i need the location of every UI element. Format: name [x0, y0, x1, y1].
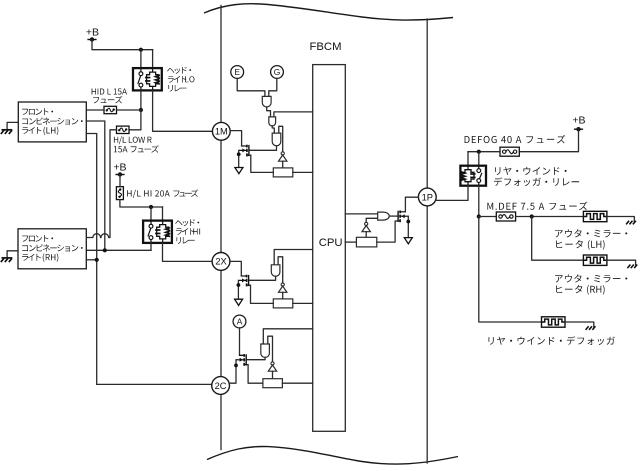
wire H/L LOW R fuse to RH low-beam feed	[110, 130, 117, 238]
junction HI relay switch feed	[149, 205, 153, 209]
junction mirror heater branch	[530, 214, 534, 218]
wire defog relay switch output	[478, 186, 480, 217]
wire gate U3 output	[272, 126, 274, 133]
wire +B to relay feeds	[92, 40, 153, 50]
resistor R3	[263, 379, 283, 388]
wire heater RH to ground	[607, 260, 636, 265]
wire gate U10 output to Q4 gate	[389, 215, 398, 217]
inverter U5	[279, 152, 287, 161]
wire HID L fuse to front combination light LH	[86, 109, 104, 111]
ground (outer mirror heater LH)	[626, 221, 636, 225]
relay: headlight HI relay	[143, 221, 172, 243]
wire gate U2 output	[267, 107, 271, 117]
node 2C	[212, 377, 230, 395]
junction high-beam LH/RH	[103, 248, 107, 252]
relay: rear window defogger relay	[460, 166, 486, 186]
wire LO relay switch top pin	[140, 50, 142, 68]
wire heater LH to ground	[607, 217, 634, 222]
junction Q3 source	[234, 364, 238, 368]
wire RH tail to 2C bus	[86, 259, 96, 261]
wire inverter U11 to resistor R4	[365, 232, 367, 238]
wire defog relay switch top pin	[478, 152, 480, 166]
junction Q4 source	[406, 220, 410, 224]
wire FBCM left boundary (below 2C)	[220, 394, 222, 449]
fuse H/L HI 20A (vertical)	[116, 187, 123, 200]
transistor Q4 (defogger relay driver)	[396, 211, 408, 223]
wire inverter U9 to resistor	[272, 371, 274, 379]
wire A to Q3 drain	[240, 328, 245, 356]
wire HI relay switch output (high beam bus)	[150, 243, 152, 250]
power +B (defogger feed)	[572, 115, 585, 132]
label headlight HI relay line1	[175, 219, 199, 226]
fuse DEFOG 40A	[500, 147, 519, 156]
label outer mirror heater RH line1	[555, 274, 627, 282]
label front combination light RH line3	[22, 253, 58, 262]
svg-text:CPU: CPU	[319, 237, 343, 249]
label rear window defogger	[489, 336, 615, 345]
wire gate U4 output to Q1 gate	[250, 146, 277, 151]
wire LH high-beam feed	[86, 121, 105, 250]
wire junction to HID L fuse	[117, 109, 141, 111]
wire RH low-beam with crossover hops	[86, 234, 110, 238]
wire LH light to ground	[7, 122, 18, 129]
wire resistor R1 to CPU	[293, 171, 313, 173]
FBCM module top boundary (torn edge)	[204, 4, 453, 20]
wire H/L HI fuse to HI relay pins	[120, 200, 163, 207]
wire E to gate input	[237, 78, 265, 96]
label HID L fuse line2	[93, 96, 122, 104]
label front combination light LH line3	[22, 127, 58, 136]
resistor R2	[273, 299, 293, 308]
wire LO relay coil top pin	[152, 50, 154, 68]
wire inverter U5 to resistor	[282, 161, 284, 168]
label 15A fuse	[114, 145, 159, 153]
svg-text:+B: +B	[86, 27, 99, 39]
wire inverter U11 to gate U10 input	[366, 218, 378, 222]
wire +B to H/L HI fuse	[119, 175, 121, 187]
ground (Q4 source)	[404, 238, 412, 244]
wire FBCM left boundary (2X to 2C)	[220, 270, 222, 376]
label defogger relay line1	[495, 167, 566, 175]
wire high-beam bus to lights	[86, 249, 151, 251]
wire M.DEF fuse to mirror heaters	[516, 216, 584, 218]
wire Q3 body to resistor R3	[248, 365, 263, 384]
transistor Q3 (tail lamp driver)	[236, 354, 248, 366]
inverter U7	[279, 283, 287, 292]
wire inverter node to gate U8 input	[268, 336, 273, 362]
node A	[233, 315, 246, 328]
label front combination light RH line1	[22, 235, 53, 242]
label defogger relay line2	[494, 177, 579, 186]
wire CPU to gate U8 input	[263, 329, 312, 344]
wire FBCM right boundary (below 1P)	[426, 206, 428, 463]
junction DEFOG fuse output	[477, 150, 481, 154]
wire CPU to gate U6 input	[274, 250, 313, 265]
wire FBCM right boundary x=427.2 (above 1P)	[426, 19, 428, 188]
wire resistor R3 to CPU	[282, 382, 312, 384]
front combination light (RH) box	[18, 229, 86, 269]
wire CPU to gate U10 input	[345, 213, 377, 215]
wire defog relay coil top pin	[467, 152, 469, 166]
inverter U9	[268, 362, 276, 371]
label H/L LOW R	[114, 136, 152, 144]
gate U2 (E/G AND)	[262, 96, 271, 107]
wire branch to mirror heater RH	[532, 217, 584, 261]
label headlight LO relay line3	[168, 85, 186, 92]
wire Q4 source to ground	[407, 216, 409, 237]
wire inverter node to gate U6 input	[278, 257, 283, 283]
label M.DEF 7.5 A fuse	[487, 202, 587, 211]
label front combination light RH line2	[22, 244, 82, 251]
gate U8	[261, 344, 270, 357]
wire RH light to ground	[7, 251, 18, 258]
label outer mirror heater LH line1	[555, 229, 627, 237]
svg-text:+B: +B	[113, 161, 126, 173]
transistor Q2 (headlight HI driver)	[238, 275, 250, 287]
gate U6	[271, 265, 280, 276]
label H/L HI 20A fuse	[127, 189, 198, 198]
svg-text:G: G	[274, 67, 281, 77]
heater: rear window defogger element	[542, 317, 566, 327]
wire DEFOG fuse to junction	[468, 151, 500, 153]
wire gate U6 output to Q2 gate	[249, 276, 275, 280]
wire 1M to Q1 drain	[230, 131, 241, 146]
wire FBCM left boundary (1M to 2X)	[220, 140, 222, 252]
wire Q1 body to resistor R1	[251, 155, 273, 172]
node G	[271, 66, 284, 79]
wire Q1 source to ground	[238, 150, 240, 167]
FBCM module bottom boundary (torn edge)	[207, 446, 458, 464]
wire Q4 drain to 1P	[405, 197, 418, 212]
node 1P	[418, 188, 436, 206]
junction tail lamp bus	[95, 258, 99, 262]
node E	[231, 66, 244, 79]
wire Q4 body to resistor R4	[377, 221, 400, 242]
wire inverter U7 to resistor	[282, 292, 284, 299]
ground (Q1 source)	[235, 168, 243, 174]
resistor R1	[273, 168, 293, 177]
svg-text:E: E	[234, 67, 240, 77]
wire resistor R2 to CPU	[293, 302, 313, 304]
label outer mirror heater RH line2	[556, 285, 605, 295]
wire +B to DEFOG fuse	[519, 129, 578, 152]
svg-text:+B: +B	[572, 115, 585, 127]
wire junction down to H/L LOW R fuse	[130, 110, 141, 130]
wire 2X to Q2 drain	[230, 261, 241, 276]
heater: outer mirror heater LH element	[583, 211, 607, 221]
label headlight HI relay line3	[177, 237, 195, 244]
ground (outer mirror heater RH)	[627, 265, 637, 269]
wire gate U8 output to Q3 gate	[247, 357, 265, 359]
wire Q2 body to resistor R2	[251, 285, 274, 303]
wire resistor R4 to CPU	[345, 241, 356, 243]
wire CPU to gate U3 input	[274, 112, 313, 117]
junction Q2 source	[237, 283, 241, 287]
svg-text:2C: 2C	[215, 381, 227, 391]
label headlight LO relay line1	[167, 67, 191, 74]
wire defogger bus to rear window defogger	[479, 217, 542, 323]
inverter U11	[362, 222, 370, 231]
wire FBCM left boundary x=221 (segment above 1M)	[220, 6, 222, 123]
power +B (headlight LO relay feed)	[86, 27, 99, 42]
front combination light (LH) box	[18, 102, 86, 142]
label DEFOG 40 A fuse	[465, 135, 566, 144]
svg-text:2X: 2X	[215, 257, 226, 267]
junction Q1 source	[237, 152, 241, 156]
wire LO relay switch output to junction	[140, 91, 142, 111]
gate U4	[272, 133, 281, 146]
transistor Q1 (headlight LO driver)	[239, 145, 251, 157]
wire 2C bus to 2C node	[97, 383, 212, 385]
wire defog relay coil to 1P	[436, 186, 468, 201]
svg-text:FBCM: FBCM	[310, 41, 342, 53]
junction defogger output bus	[477, 214, 481, 218]
heater: outer mirror heater RH element	[583, 255, 607, 265]
wire inverter node to gate U4 input	[279, 126, 283, 152]
junction +B feed to LO relay switch	[139, 48, 143, 52]
wire G to gate input	[269, 78, 277, 96]
relay: headlight LO relay	[133, 68, 162, 90]
ground (Q2 source)	[235, 299, 243, 305]
wire HI relay coil to 2X	[163, 243, 213, 262]
gate U3	[269, 117, 276, 126]
wire LO relay coil to 1M	[153, 91, 213, 132]
ground (rear window defogger)	[586, 326, 596, 330]
wire junction to M.DEF fuse	[479, 216, 497, 218]
wire Q2 source to ground	[237, 280, 239, 299]
svg-text:1P: 1P	[422, 192, 433, 202]
power +B (H/L HI fuse feed)	[113, 161, 126, 176]
fuse M.DEF 7.5A	[496, 212, 515, 221]
wire rear defogger to ground	[565, 322, 594, 327]
label HID L 15A	[92, 89, 127, 95]
node 1M	[212, 122, 230, 140]
CPU U1 box	[313, 65, 346, 432]
label front combination light LH line1	[22, 108, 53, 115]
svg-text:A: A	[237, 317, 243, 327]
resistor R4	[356, 237, 376, 247]
wire LH tail feed down to 2C	[86, 134, 96, 385]
fuse HID L 15A	[104, 106, 117, 113]
wire HI relay coil top pin	[162, 207, 164, 221]
label outer mirror heater LH line2	[556, 240, 605, 250]
wire Q3 source to 2C	[230, 360, 237, 383]
wire HI relay switch top pin	[150, 207, 152, 221]
node 2X	[212, 253, 230, 271]
gate U10 (defogger AND)	[378, 212, 389, 220]
fuse H/L LOW R 15A	[117, 126, 130, 133]
junction LO relay output / HID fuse / LOW fuse	[139, 108, 143, 112]
label headlight LO relay line2	[168, 76, 195, 83]
ground (front combination light RH)	[1, 258, 13, 262]
label front combination light LH line2	[22, 117, 82, 124]
ground (front combination light LH)	[1, 130, 13, 134]
svg-text:1M: 1M	[215, 127, 228, 137]
label headlight HI relay line2	[176, 228, 200, 235]
